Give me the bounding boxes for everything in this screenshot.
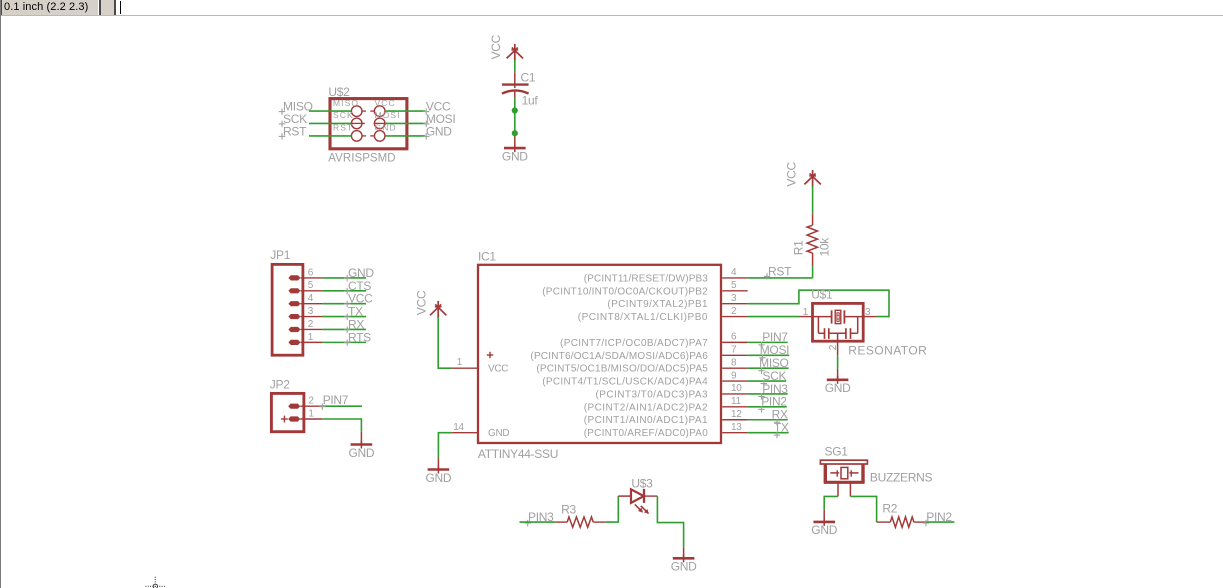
svg-text:R2: R2: [882, 502, 897, 516]
svg-text:GND: GND: [502, 149, 528, 163]
svg-text:U$3: U$3: [631, 477, 653, 491]
svg-text:1: 1: [308, 408, 314, 419]
svg-text:(PCINT11/RESET/DW)PB3: (PCINT11/RESET/DW)PB3: [584, 273, 709, 284]
svg-text:3: 3: [308, 306, 314, 317]
svg-text:2: 2: [731, 306, 737, 317]
svg-text:(PCINT10/INT0/OC0A/CKOUT)PB2: (PCINT10/INT0/OC0A/CKOUT)PB2: [542, 286, 708, 297]
svg-text:1: 1: [457, 357, 463, 368]
svg-text:RX: RX: [772, 408, 788, 422]
svg-text:3: 3: [731, 293, 737, 304]
svg-text:MISO: MISO: [333, 98, 359, 108]
svg-text:9: 9: [731, 370, 737, 381]
svg-text:VCC: VCC: [488, 364, 508, 375]
svg-text:GND: GND: [811, 523, 837, 537]
svg-text:5: 5: [308, 280, 314, 291]
svg-text:AVRISPSMD: AVRISPSMD: [328, 153, 395, 165]
svg-text:4: 4: [731, 267, 737, 278]
svg-text:VCC: VCC: [784, 162, 798, 187]
svg-text:GND: GND: [426, 124, 452, 138]
svg-text:RX: RX: [348, 317, 364, 331]
svg-text:PIN7: PIN7: [323, 393, 349, 407]
svg-text:GND: GND: [349, 446, 375, 460]
svg-text:10k: 10k: [817, 237, 831, 257]
svg-text:5: 5: [731, 280, 737, 291]
svg-text:7: 7: [731, 344, 737, 355]
svg-text:(PCINT2/AIN1/ADC2)PA2: (PCINT2/AIN1/ADC2)PA2: [584, 402, 708, 413]
svg-text:ATTINY44-SSU: ATTINY44-SSU: [478, 447, 558, 461]
svg-text:(PCINT6/OC1A/SDA/MOSI/ADC6)PA6: (PCINT6/OC1A/SDA/MOSI/ADC6)PA6: [530, 351, 708, 362]
svg-text:8: 8: [731, 357, 737, 368]
svg-text:(PCINT5/OC1B/MISO/DO/ADC5)PA5: (PCINT5/OC1B/MISO/DO/ADC5)PA5: [536, 364, 708, 375]
svg-text:GND: GND: [426, 471, 452, 485]
svg-text:2: 2: [308, 319, 314, 330]
svg-text:BUZZERNS: BUZZERNS: [870, 471, 933, 485]
svg-text:(PCINT7/ICP/OC0B/ADC7)PA7: (PCINT7/ICP/OC0B/ADC7)PA7: [560, 338, 708, 349]
svg-text:SG1: SG1: [825, 444, 849, 458]
svg-text:U$2: U$2: [328, 85, 350, 99]
svg-text:VCC: VCC: [489, 34, 503, 59]
svg-text:(PCINT1/AIN0/ADC1)PA1: (PCINT1/AIN0/ADC1)PA1: [584, 415, 708, 426]
svg-text:RTS: RTS: [348, 330, 371, 344]
svg-text:CTS: CTS: [348, 279, 371, 293]
svg-text:R1: R1: [792, 240, 806, 255]
svg-text:JP2: JP2: [270, 378, 290, 392]
svg-text:1: 1: [308, 332, 314, 343]
svg-text:6: 6: [731, 332, 737, 343]
svg-text:RST: RST: [768, 265, 792, 279]
svg-text:U$1: U$1: [811, 287, 833, 301]
svg-text:GND: GND: [825, 381, 851, 395]
svg-text:IC1: IC1: [478, 249, 496, 263]
svg-text:C1: C1: [521, 71, 536, 85]
svg-text:GND: GND: [488, 428, 509, 439]
svg-text:13: 13: [731, 422, 742, 433]
svg-text:(PCINT3/T0/ADC3)PA3: (PCINT3/T0/ADC3)PA3: [596, 389, 708, 400]
svg-text:1uf: 1uf: [522, 93, 539, 107]
svg-text:RESONATOR: RESONATOR: [848, 343, 927, 357]
svg-text:(PCINT4/T1/SCL/USCK/ADC4)PA4: (PCINT4/T1/SCL/USCK/ADC4)PA4: [542, 377, 708, 388]
svg-text:14: 14: [453, 422, 464, 433]
svg-text:4: 4: [308, 293, 314, 304]
svg-text:11: 11: [731, 396, 742, 407]
svg-text:6: 6: [308, 267, 314, 278]
svg-text:VCC: VCC: [348, 292, 373, 306]
svg-text:SCK: SCK: [762, 369, 786, 383]
svg-text:(PCINT9/XTAL2)PB1: (PCINT9/XTAL2)PB1: [607, 299, 708, 310]
svg-text:(PCINT0/AREF/ADC0)PA0: (PCINT0/AREF/ADC0)PA0: [584, 428, 709, 439]
svg-text:JP1: JP1: [270, 248, 290, 262]
svg-text:1: 1: [803, 307, 809, 318]
svg-text:VCC: VCC: [415, 290, 429, 315]
svg-text:3: 3: [865, 307, 871, 318]
svg-text:PIN7: PIN7: [762, 330, 788, 344]
svg-text:2: 2: [308, 396, 314, 407]
svg-text:10: 10: [731, 383, 742, 394]
svg-text:GND: GND: [671, 560, 697, 574]
svg-text:VCC: VCC: [375, 98, 396, 108]
svg-text:12: 12: [731, 409, 742, 420]
svg-text:(PCINT8/XTAL1/CLKI)PB0: (PCINT8/XTAL1/CLKI)PB0: [578, 312, 708, 323]
svg-text:R3: R3: [561, 503, 576, 517]
svg-text:RST: RST: [283, 124, 307, 138]
